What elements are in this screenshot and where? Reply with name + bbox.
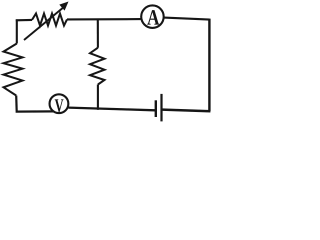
node junction top (middle branch tap) bbox=[97, 19, 99, 48]
wire rheostat to ammeter bbox=[67, 18, 141, 20]
wire right vertical bbox=[208, 19, 210, 112]
wire below R1 to bottom-left corner bbox=[16, 96, 53, 112]
wire left vertical (corner to resistor R1) bbox=[16, 19, 18, 43]
wire top-left horizontal (corner to rheostat) bbox=[16, 19, 32, 21]
ammeter label A bbox=[147, 10, 159, 25]
rheostat R (variable resistor zigzag) bbox=[32, 14, 67, 26]
resistor R2 (middle zigzag) bbox=[90, 48, 105, 85]
wire ammeter to top-right corner bbox=[164, 18, 210, 20]
wire voltmeter to battery bbox=[69, 108, 156, 111]
node junction bottom (middle branch) bbox=[97, 85, 99, 110]
resistor R1 (left zigzag) bbox=[4, 44, 23, 96]
rheostat wiper arrow shaft bbox=[24, 7, 65, 41]
voltmeter label V bbox=[55, 99, 64, 112]
wire battery to bottom-right corner bbox=[162, 110, 210, 112]
battery cell positive plate (long) bbox=[160, 94, 162, 122]
battery cell negative plate (short) bbox=[155, 100, 157, 117]
ammeter U1 circle bbox=[141, 5, 164, 28]
rheostat arrowhead bbox=[59, 2, 68, 11]
voltmeter U2 circle bbox=[50, 94, 69, 113]
